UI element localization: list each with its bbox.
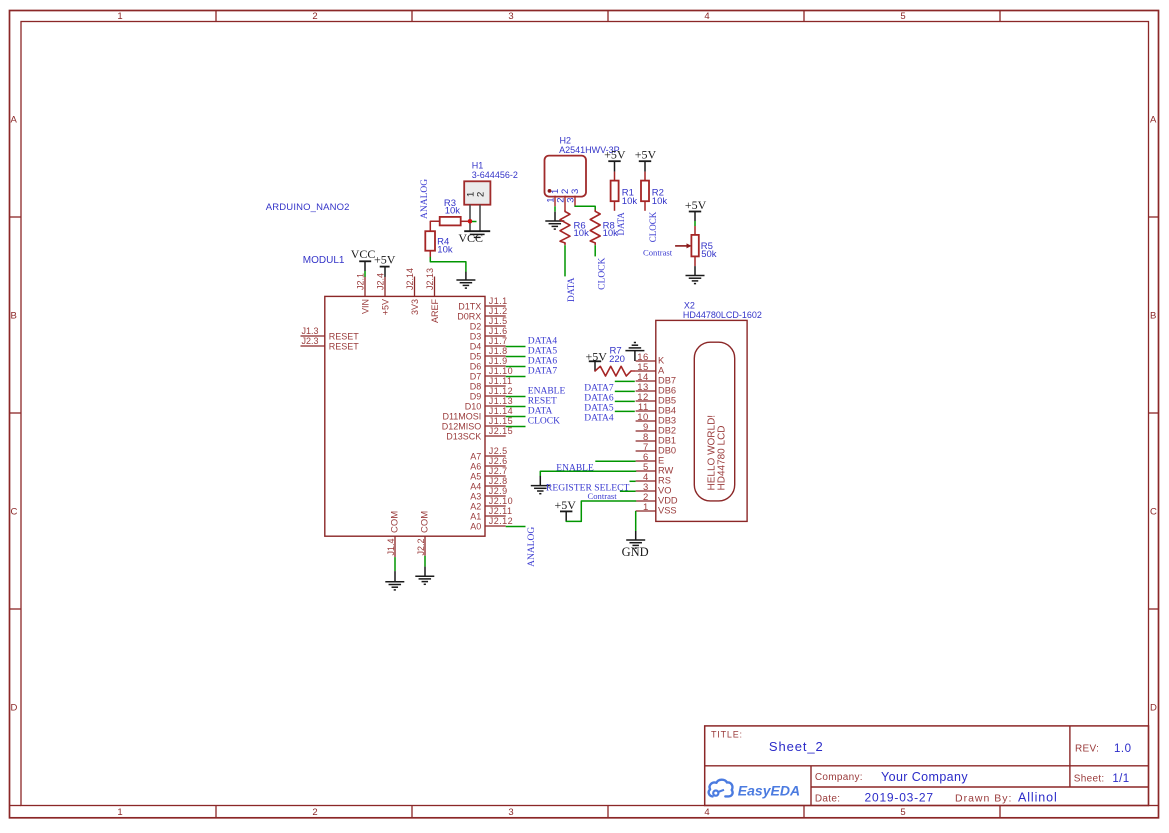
svg-text:D2: D2 [470,321,482,331]
svg-text:C: C [1150,507,1157,518]
svg-text:DATA6: DATA6 [584,393,614,403]
svg-text:RS: RS [658,475,671,485]
svg-text:DATA: DATA [567,277,577,302]
svg-text:DATA7: DATA7 [528,367,558,377]
svg-text:J1.10: J1.10 [489,366,513,376]
wire R2 bottom net CLOCK [644,201,646,211]
svg-text:10k: 10k [445,206,461,217]
svg-text:J2.4: J2.4 [376,273,386,290]
wire net DATA at D11MOSI [506,416,526,418]
svg-text:ARDUINO_NANO2: ARDUINO_NANO2 [266,202,350,213]
MODUL1 pin J1.11 (D8) [485,385,506,387]
MODUL1 pin J2.3 (RESET) [301,345,325,347]
MODUL1 top pin J2.14 (3V3) [414,277,416,297]
svg-text:J1.12: J1.12 [489,386,513,396]
svg-text:ENABLE: ENABLE [556,464,594,474]
svg-text:J2.12: J2.12 [489,516,513,526]
wire net DATA4 at X2 DB4 [615,410,635,412]
wire net ENABLE at D9 [506,396,526,398]
svg-text:J1.14: J1.14 [489,406,513,416]
wire net Contrast at X2 pin3 VO [620,490,636,492]
svg-text:J1.2: J1.2 [489,306,508,316]
svg-text:DB2: DB2 [658,425,676,435]
svg-text:J1.9: J1.9 [489,356,508,366]
svg-text:10k: 10k [652,196,668,207]
wire VCC to VIN pin [364,271,366,277]
svg-text:DATA: DATA [528,407,553,417]
svg-text:1.0: 1.0 [1114,743,1132,755]
svg-text:AREF: AREF [430,299,440,324]
svg-text:Contrast: Contrast [588,491,618,501]
wire net RESET at D10 [506,406,526,408]
X2 pin 1 (VSS) [636,510,656,512]
svg-text:D: D [11,703,18,714]
EasyEDA logo cloud [709,780,733,797]
svg-text:CLOCK: CLOCK [598,257,608,289]
svg-text:Company:: Company: [815,772,863,783]
wire net DATA6 at D6 [506,366,526,368]
svg-text:A: A [1150,115,1157,126]
wire +5V to X2 pin2 VDD [566,501,635,521]
X2 pin 12 (DB5) [636,400,656,402]
R5 wiper arrow [675,245,687,247]
MODUL1 pin J2.6 (A6) [485,465,506,467]
module X2 (HD44780LCD-1602) body [656,320,747,521]
resistor R8 (zigzag) [590,210,600,243]
svg-text:A: A [658,365,665,375]
svg-text:A7: A7 [470,451,481,461]
MODUL1 pin J1.10 (D7) [485,375,506,377]
wire X2 pin5 RW to ground [540,471,635,476]
X2 pin 6 (E) [636,460,656,462]
svg-text:J2.2: J2.2 [416,539,426,556]
svg-text:3: 3 [508,11,513,22]
svg-text:VSS: VSS [658,505,677,515]
svg-text:A4: A4 [470,481,481,491]
X2 pin 2 (VDD) [636,500,656,502]
ground GND at VSS [626,539,645,541]
svg-text:J2.13: J2.13 [425,268,435,290]
svg-text:B: B [1150,311,1156,322]
svg-text:D6: D6 [470,361,482,371]
resistor R6 (zigzag) [560,210,570,243]
MODUL1 pin J1.7 (D4) [485,345,506,347]
svg-text:50k: 50k [701,249,717,260]
svg-text:220: 220 [609,354,625,365]
wire net DATA6 at X2 DB6 [615,390,635,392]
potentiometer R5 [691,235,698,257]
svg-text:+5V: +5V [604,147,626,161]
svg-text:5: 5 [900,807,905,818]
MODUL1 top pin J2.1 (VIN) [364,277,366,297]
svg-text:J1.7: J1.7 [489,336,508,346]
svg-text:E: E [658,455,664,465]
MODUL1 pin J1.8 (D5) [485,355,506,357]
svg-text:A1: A1 [470,511,481,521]
MODUL1 pin J2.10 (A2) [485,505,506,507]
svg-text:DATA: DATA [616,212,626,236]
MODUL1 pin J1.5 (D2) [485,325,506,327]
svg-text:1/1: 1/1 [1112,773,1129,785]
svg-text:H2: H2 [560,135,572,145]
svg-text:3: 3 [570,189,581,194]
ground GND at J2.2 [415,575,434,577]
svg-text:10k: 10k [437,244,453,255]
svg-text:D7: D7 [470,371,482,381]
svg-text:3: 3 [566,198,577,203]
svg-text:D12MISO: D12MISO [442,421,482,431]
svg-text:4: 4 [704,11,709,22]
X2 pin 7 (DB0) [636,450,656,452]
wire net CLOCK at D12MISO [506,426,526,428]
wire net ENABLE at X2 pin6 E [595,460,635,462]
H1 pin 1 [469,205,471,232]
svg-text:10k: 10k [622,196,638,207]
svg-text:DB6: DB6 [658,385,676,395]
svg-text:+5V: +5V [381,299,391,315]
module MODUL1 (ARDUINO_NANO2) body [325,296,485,536]
svg-text:D8: D8 [470,381,482,391]
svg-text:C: C [11,507,18,518]
MODUL1 pin J1.13 (D10) [485,405,506,407]
frame row ticks left [10,216,22,218]
svg-text:J2.8: J2.8 [489,476,508,486]
svg-text:J2.7: J2.7 [489,466,508,476]
svg-text:VCC: VCC [351,247,376,261]
svg-text:DB3: DB3 [658,415,676,425]
connector H1 body [464,181,490,204]
svg-text:D0RX: D0RX [457,311,481,321]
svg-text:COM: COM [420,511,431,533]
svg-text:DATA6: DATA6 [528,357,558,367]
MODUL1 bottom pin J2.2 (COM) [424,536,426,556]
H2 pin 1 [554,196,556,207]
svg-text:J1.5: J1.5 [489,316,508,326]
svg-text:J2.10: J2.10 [489,496,513,506]
svg-text:Date:: Date: [815,794,840,805]
svg-text:TITLE:: TITLE: [711,730,743,740]
wire R8 bottom net CLOCK [594,243,596,245]
svg-text:D11MOSI: D11MOSI [442,411,481,421]
svg-text:RW: RW [658,465,674,475]
resistor R2 [641,181,649,202]
wire net DATA7 at D7 [506,376,526,378]
svg-text:D13SCK: D13SCK [446,431,481,441]
wire R6 bottom net DATA [564,243,566,245]
svg-text:Sheet:: Sheet: [1074,774,1105,785]
svg-text:REV:: REV: [1075,743,1099,754]
X2 pin 15 (A) [636,370,656,372]
svg-text:Drawn By:: Drawn By: [955,793,1012,805]
resistor R7 (zigzag) [595,366,631,376]
resistor R1 [611,181,619,202]
wire net ANALOG at A0 [506,526,526,528]
svg-text:VIN: VIN [361,299,371,314]
wire stub right of junction [472,221,477,223]
svg-text:D5: D5 [470,351,482,361]
svg-text:+5V: +5V [374,252,396,266]
X2 pin 13 (DB6) [636,390,656,392]
wire J2.2 to ground [424,556,426,567]
svg-text:B: B [11,311,17,322]
H2 pin 3 [574,196,576,207]
svg-text:DATA4: DATA4 [584,413,614,423]
svg-text:DB7: DB7 [658,375,676,385]
svg-text:A5: A5 [470,471,481,481]
wire +5V to R2 [644,172,646,181]
wire net DATA7 at X2 DB7 [615,380,635,382]
MODUL1 pin J2.7 (A5) [485,475,506,477]
svg-text:RESET: RESET [329,341,360,351]
MODUL1 pin J1.15 (D12MISO) [485,425,506,427]
svg-text:10k: 10k [574,228,590,239]
wire net REGISTER SELECT at X2 pin4 RS [630,480,636,482]
svg-text:J2.11: J2.11 [489,506,513,516]
MODUL1 bottom pin J1.4 (COM) [394,536,396,557]
MODUL1 pin J2.15 (D13SCK) [485,435,506,437]
resistor R3 [440,217,461,226]
svg-text:J2.5: J2.5 [489,446,508,456]
svg-text:2019-03-27: 2019-03-27 [865,791,934,805]
svg-text:D9: D9 [470,391,482,401]
MODUL1 pin J1.12 (D9) [485,395,506,397]
ground GND under R5 [686,275,705,277]
svg-text:+5V: +5V [685,198,707,212]
svg-text:J1.3: J1.3 [302,326,319,336]
resistor R4 [425,231,435,251]
svg-text:GND: GND [622,545,649,559]
svg-text:D1TX: D1TX [458,301,481,311]
svg-text:DATA5: DATA5 [584,403,614,413]
svg-text:+5V: +5V [635,147,657,161]
frame row ticks right [1149,216,1159,218]
svg-text:D4: D4 [470,341,482,351]
svg-text:CLOCK: CLOCK [648,211,658,242]
wire +5V to R1 [614,172,616,181]
ground GND at H2 pin1 [545,220,564,222]
X2 pin 4 (RS) [636,480,656,482]
svg-text:DB5: DB5 [658,395,676,405]
X2 pin 16 (K) [636,360,656,362]
frame column ticks top [215,11,217,22]
svg-text:J2.15: J2.15 [489,426,513,436]
wire X2 pin1 VSS to ground [635,511,637,531]
MODUL1 pin J2.5 (A7) [485,455,506,457]
svg-text:2: 2 [312,807,317,818]
wire net DATA5 at D5 [506,356,526,358]
svg-text:J2.6: J2.6 [489,456,508,466]
svg-text:A0: A0 [470,521,481,531]
svg-text:VO: VO [658,485,671,495]
svg-text:K: K [658,355,665,365]
svg-text:MODUL1: MODUL1 [303,255,345,266]
svg-text:4: 4 [704,807,709,818]
svg-text:Contrast: Contrast [643,247,673,257]
X2 pin 10 (DB3) [636,420,656,422]
X2 display window [694,342,734,501]
svg-text:ENABLE: ENABLE [528,387,566,397]
svg-text:3V3: 3V3 [410,299,420,315]
svg-text:DATA4: DATA4 [528,337,558,347]
svg-text:VCC: VCC [458,231,483,245]
MODUL1 pin J2.12 (A0) [485,525,506,527]
svg-text:J1.15: J1.15 [489,416,513,426]
svg-text:+5V: +5V [555,498,577,512]
MODUL1 pin J1.9 (D6) [485,365,506,367]
svg-text:5: 5 [900,11,905,22]
svg-text:J1.4: J1.4 [386,539,396,556]
svg-text:DB0: DB0 [658,445,676,455]
MODUL1 pin J2.11 (A1) [485,515,506,517]
svg-text:Your Company: Your Company [881,770,968,784]
svg-text:J2.14: J2.14 [405,268,415,290]
H1 pin 2 [479,205,481,232]
svg-text:1: 1 [117,11,122,22]
X2 pin 8 (DB1) [636,440,656,442]
ground GND at RW [531,485,550,487]
MODUL1 pin J2.9 (A3) [485,495,506,497]
wire R5 to ground [694,256,696,266]
X2 pin 3 (VO) [636,490,656,492]
svg-text:ANALOG: ANALOG [527,527,537,567]
svg-text:J1.6: J1.6 [489,326,508,336]
wire R7 to X2 pin15 A [631,370,636,372]
svg-text:1: 1 [117,807,122,818]
junction dot H1 pin1 [468,219,473,224]
wire R4 bottom [429,251,431,258]
svg-text:J2.1: J2.1 [356,273,366,290]
wire J1.4 to ground [394,557,396,571]
svg-text:J1.8: J1.8 [489,346,508,356]
svg-text:ANALOG: ANALOG [420,179,430,219]
MODUL1 pin J1.2 (D0RX) [485,315,506,317]
wire R4 to ground [430,257,466,271]
svg-text:RESET: RESET [528,397,557,407]
title block outline [705,726,1149,806]
inverted ground at X2 pin16 K [634,351,636,361]
X2 pin 5 (RW) [636,470,656,472]
svg-text:3: 3 [508,807,513,818]
svg-text:EasyEDA: EasyEDA [738,782,800,798]
wire R3 left to R4 top [430,221,439,231]
svg-text:D3: D3 [470,331,482,341]
svg-text:J1.1: J1.1 [489,296,508,306]
svg-text:A6: A6 [470,461,481,471]
svg-text:CLOCK: CLOCK [528,417,560,427]
ground GND at J1.4 [385,581,404,583]
connector H2 body [545,156,587,197]
wire net DATA4 at D4 [506,346,526,348]
svg-text:Allinol: Allinol [1018,790,1058,804]
svg-text:3-644456-2: 3-644456-2 [472,170,518,180]
svg-text:A2: A2 [470,501,481,511]
MODUL1 pin J1.1 (D1TX) [485,305,506,307]
svg-text:HD44780 LCD: HD44780 LCD [716,425,727,490]
svg-text:VDD: VDD [658,495,678,505]
wire R1 bottom net DATA [614,201,616,211]
svg-text:COM: COM [390,511,401,533]
svg-text:DATA7: DATA7 [584,383,614,393]
title block divider lines [705,765,1149,767]
ground flag VCC under H1 [464,230,490,232]
svg-text:1: 1 [643,502,649,513]
MODUL1 pin J1.3 (RESET) [301,335,325,337]
svg-text:J1.11: J1.11 [489,376,513,386]
svg-text:2: 2 [312,11,317,22]
svg-text:J2.9: J2.9 [489,486,508,496]
X2 pin 11 (DB4) [636,410,656,412]
MODUL1 top pin J2.13 (AREF) [434,277,436,297]
svg-text:HD44780LCD-1602: HD44780LCD-1602 [683,310,762,320]
svg-text:J2.3: J2.3 [302,336,319,346]
MODUL1 pin J2.8 (A4) [485,485,506,487]
svg-text:DATA5: DATA5 [528,347,558,357]
H2 pin1 dot marker [548,189,552,193]
wire net DATA5 at X2 DB5 [615,400,635,402]
wire +5V to R5 [694,221,696,226]
wire H2 pin1 to ground [554,206,556,211]
wire R3 right to H1 junction [461,220,469,222]
svg-text:A: A [11,115,18,126]
svg-text:D10: D10 [465,401,482,411]
H2 pin 2 [564,196,566,211]
svg-text:DB4: DB4 [658,405,676,415]
frame column ticks bottom [215,806,217,818]
svg-text:D: D [1150,703,1157,714]
MODUL1 pin J1.14 (D11MOSI) [485,415,506,417]
X2 pin 9 (DB2) [636,430,656,432]
MODUL1 pin J1.6 (D3) [485,335,506,337]
svg-text:J1.13: J1.13 [489,396,513,406]
svg-text:DB1: DB1 [658,435,676,445]
svg-text:2: 2 [476,192,487,197]
MODUL1 top pin J2.4 (+5V) [384,277,386,297]
ground GND under R4 wire [456,279,475,281]
wire H2 pin3 to R8 [575,206,595,210]
svg-text:Sheet_2: Sheet_2 [769,739,824,754]
svg-text:RESET: RESET [329,331,360,341]
X2 pin 14 (DB7) [636,380,656,382]
svg-text:A3: A3 [470,491,481,501]
